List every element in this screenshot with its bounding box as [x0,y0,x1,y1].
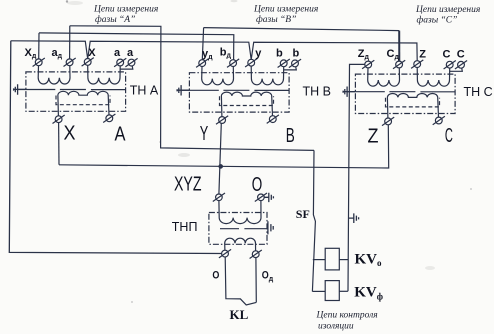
svg-text:Z: Z [419,48,426,60]
TNP primary terminal 1 [216,194,223,201]
relay KV_o [325,248,339,270]
svg-text:XYZ: XYZ [174,174,202,196]
svg-text:фазы “А”: фазы “А” [95,14,135,25]
bus to Z output [59,125,389,168]
neutral wire down-left to TNP [9,41,222,254]
relay contact KL [225,257,256,305]
TNP secondary terminal O [222,250,229,257]
svg-text:SF: SF [296,207,310,221]
wire to KV_o left [313,259,325,261]
wire to KV_f left [312,290,325,292]
relay KV_f [325,281,339,301]
transformer TH A (winding assembly) [14,58,138,124]
svg-text:а: а [114,47,121,59]
transformer TH B (winding assembly) [177,58,301,124]
svg-text:изоляции: изоляции [318,322,354,332]
svg-text:KL: KL [230,307,249,322]
svg-text:фазы “С”: фазы “С” [417,15,458,26]
svg-text:Цепи измерения: Цепи измерения [415,5,480,15]
svg-text:ТНП: ТНП [172,220,198,234]
wire to KV_o right [339,259,348,261]
svg-text:b: b [276,48,283,60]
svg-text:фазы “В”: фазы “В” [256,14,296,25]
TNP secondary winding [225,238,256,251]
svg-text:а: а [127,47,134,59]
wire: Cd(C) drop [398,31,400,61]
wire to KV_f right [339,290,348,292]
svg-text:Z: Z [368,125,379,147]
svg-text:ТН А: ТН А [130,83,159,97]
wire: Xd(A) up [38,33,40,59]
wire: Y output down to TNP [219,123,221,194]
svg-text:О: О [252,174,262,196]
TNP dash-dot box [209,213,267,245]
wire: X output to bus [58,122,60,164]
ground (TNP terminal 2) [264,193,273,202]
transformer TH C (winding assembly) [343,60,467,126]
wire: yd(B) to Cd(C) [204,28,400,31]
TNP primary terminal 2 [258,194,265,201]
svg-text:b: b [293,48,300,60]
switch SF [312,150,315,291]
wire: yd(B) up [202,28,203,60]
ground (C rail) [349,213,359,223]
neutral tie wire X-Y-Z [11,41,417,61]
wire: ad(A) up [69,26,71,59]
svg-text:С: С [443,48,451,60]
svg-text:Цепи контроля: Цепи контроля [316,311,378,321]
svg-text:X: X [88,47,96,59]
svg-text:B: B [286,125,295,147]
wire: Zd(C) to ground rail [348,64,365,291]
wire: ad(A) to SF rail [70,26,314,151]
svg-text:Цепи измерения: Цепи измерения [253,5,318,15]
svg-text:Цепи измерения: Цепи измерения [93,5,158,15]
svg-text:X: X [64,123,76,145]
TNP core [220,228,267,230]
svg-text:A: A [115,123,127,145]
ground (TNP core) [268,221,273,234]
svg-text:О: О [212,270,219,282]
svg-text:С: С [457,48,465,60]
svg-text:Y: Y [200,123,209,145]
TNP primary winding [219,200,261,223]
junction: Y wire on bus [219,165,222,168]
svg-text:ТН С: ТН С [464,85,493,99]
wire: Xd(A) to bd(B) [39,33,234,60]
TNP secondary terminal Od [252,251,259,258]
svg-text:C: C [445,125,453,147]
svg-text:y: y [255,48,262,60]
svg-text:ТН В: ТН В [303,84,331,98]
